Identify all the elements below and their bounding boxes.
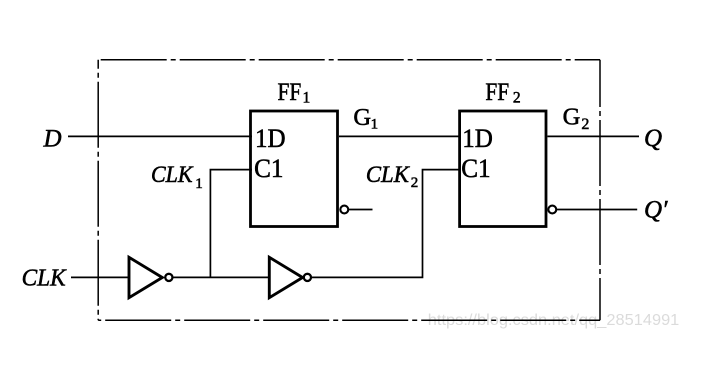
label CLK1 (151, 162, 203, 192)
svg-text:1: 1 (371, 116, 379, 132)
label FF2 (485, 79, 520, 106)
label G2 (563, 104, 590, 133)
svg-text:C1: C1 (254, 154, 283, 183)
wire CLK1 (210, 170, 252, 278)
svg-text:1: 1 (195, 176, 203, 192)
bubble inverter G4 (304, 274, 311, 281)
bubble FF2 inverted output (548, 206, 556, 214)
label FF1 (278, 79, 311, 106)
wire D input (68, 135, 252, 137)
svg-text:2: 2 (411, 175, 419, 191)
latch FF1 (251, 111, 338, 227)
svg-text:CLK: CLK (22, 264, 68, 291)
svg-text:1D: 1D (462, 124, 493, 153)
svg-text:CLK: CLK (151, 162, 194, 187)
wire Q' output (556, 209, 637, 211)
label G1 (353, 104, 378, 132)
svg-text:2: 2 (513, 89, 521, 106)
svg-text:FF: FF (278, 79, 302, 106)
svg-text:G: G (353, 104, 371, 131)
svg-text:Q′: Q′ (644, 196, 668, 223)
latch FF2 (460, 111, 546, 227)
wire FF1 inverted output stub (348, 209, 372, 211)
inverter G3 (129, 257, 162, 297)
inverter G4 (269, 257, 302, 297)
svg-text:1: 1 (303, 89, 311, 106)
wire CLK2 feed (inverter G4 output up to FF2) (312, 170, 461, 278)
bubble FF1 inverted output (340, 206, 348, 214)
dashed boundary box (98, 60, 600, 321)
svg-text:2: 2 (581, 116, 589, 133)
svg-text:G: G (563, 104, 581, 131)
bubble inverter G3 (165, 274, 172, 281)
label CLK2 (366, 162, 418, 191)
wire CLK input (71, 276, 130, 278)
svg-text:Q: Q (644, 125, 662, 152)
wire Q output (548, 135, 640, 137)
wire G1 (FF1 to FF2) (339, 135, 461, 137)
wire inverter G3 to inverter G4 (173, 276, 270, 278)
svg-text:D: D (43, 125, 62, 152)
svg-text:CLK: CLK (366, 162, 411, 187)
svg-text:C1: C1 (461, 154, 490, 183)
svg-text:1D: 1D (255, 124, 286, 153)
svg-text:FF: FF (485, 79, 509, 106)
